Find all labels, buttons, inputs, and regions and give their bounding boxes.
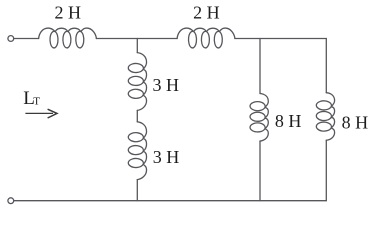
svg-text:LT: LT xyxy=(23,88,40,109)
svg-text:8 H: 8 H xyxy=(342,112,369,132)
svg-text:8 H: 8 H xyxy=(275,111,302,131)
svg-text:2 H: 2 H xyxy=(193,3,220,23)
svg-text:2 H: 2 H xyxy=(55,2,82,22)
svg-text:3 H: 3 H xyxy=(153,147,180,167)
svg-text:3 H: 3 H xyxy=(153,75,180,95)
